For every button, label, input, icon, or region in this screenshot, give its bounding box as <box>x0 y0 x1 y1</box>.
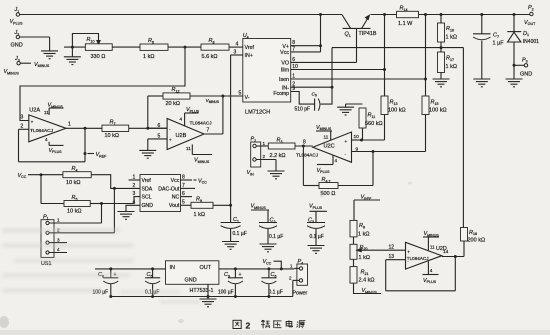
svg-text:Vout: Vout <box>169 203 180 209</box>
svg-text:0.1 µF: 0.1 µF <box>310 234 324 240</box>
svg-text:+: + <box>239 272 242 278</box>
svg-text:4: 4 <box>236 42 239 48</box>
svg-text:510 pF: 510 pF <box>295 107 311 113</box>
svg-text:1 kΩ: 1 kΩ <box>359 255 370 261</box>
svg-text:12: 12 <box>389 245 395 251</box>
svg-text:+: + <box>407 249 410 254</box>
svg-text:NC: NC <box>172 195 180 201</box>
svg-text:+: + <box>345 139 348 144</box>
svg-text:IN4001: IN4001 <box>523 39 539 45</box>
svg-text:5: 5 <box>239 91 242 97</box>
svg-text:1: 1 <box>292 74 295 80</box>
svg-text:14: 14 <box>443 249 449 255</box>
svg-text:5: 5 <box>182 200 185 206</box>
svg-text:TL084ACJ: TL084ACJ <box>296 152 318 157</box>
svg-text:SDA: SDA <box>142 186 153 192</box>
svg-text:0.1 µF: 0.1 µF <box>269 234 283 240</box>
svg-text:GND: GND <box>142 203 154 209</box>
svg-text:1 kΩ: 1 kΩ <box>194 212 205 218</box>
svg-text:V+: V+ <box>282 44 289 50</box>
svg-text:GND: GND <box>520 72 532 78</box>
svg-text:10 kΩ: 10 kΩ <box>66 180 81 186</box>
svg-text:10: 10 <box>354 134 360 140</box>
svg-text:Fcomp: Fcomp <box>273 91 289 97</box>
svg-text:LM712CH: LM712CH <box>245 109 270 115</box>
svg-text:+: + <box>31 120 34 125</box>
svg-text:4: 4 <box>430 268 433 273</box>
svg-text:+: + <box>169 138 172 143</box>
svg-text:1 µF: 1 µF <box>493 40 505 46</box>
svg-text:Power: Power <box>293 291 308 297</box>
svg-text:100 kΩ: 100 kΩ <box>429 108 447 114</box>
svg-text:SCL: SCL <box>142 195 152 201</box>
svg-text:IN: IN <box>170 265 176 271</box>
svg-text:GND: GND <box>11 43 23 49</box>
svg-text:20 kΩ: 20 kΩ <box>166 101 181 107</box>
svg-text:6: 6 <box>182 191 185 197</box>
svg-text:3: 3 <box>234 50 237 56</box>
svg-text:Vcc: Vcc <box>280 50 289 56</box>
svg-text:11: 11 <box>430 244 435 249</box>
svg-text:HT7533-1: HT7533-1 <box>190 288 214 294</box>
svg-text:11: 11 <box>186 146 191 151</box>
svg-text:0.1 µF: 0.1 µF <box>269 289 283 295</box>
svg-text:100 kΩ: 100 kΩ <box>388 108 406 114</box>
svg-text:10 kΩ: 10 kΩ <box>67 209 82 215</box>
svg-text:100 µF: 100 µF <box>218 289 234 295</box>
svg-text:1.1 W: 1.1 W <box>398 21 413 27</box>
svg-text:200 kΩ: 200 kΩ <box>468 238 486 244</box>
svg-text:9: 9 <box>292 86 295 92</box>
svg-text:2: 2 <box>21 124 24 130</box>
svg-text:3: 3 <box>21 115 24 121</box>
svg-text:4: 4 <box>180 117 183 122</box>
svg-text:7: 7 <box>207 127 210 133</box>
svg-text:4: 4 <box>247 35 249 39</box>
svg-text:11: 11 <box>324 134 329 139</box>
svg-text:2.2 kΩ: 2.2 kΩ <box>270 153 286 159</box>
svg-text:6: 6 <box>292 57 295 63</box>
svg-text:7: 7 <box>182 183 185 189</box>
svg-text:8: 8 <box>303 140 306 146</box>
svg-text:Ilim: Ilim <box>281 68 290 74</box>
svg-text:560 kΩ: 560 kΩ <box>365 121 383 127</box>
svg-text:1 kΩ: 1 kΩ <box>446 64 457 70</box>
svg-text:V-: V- <box>245 95 250 101</box>
svg-text:DAC-Out: DAC-Out <box>158 186 180 192</box>
svg-text:1: 1 <box>263 141 266 146</box>
svg-text:9: 9 <box>356 146 359 152</box>
svg-text:4: 4 <box>45 137 48 142</box>
svg-text:11: 11 <box>44 110 49 115</box>
svg-text:TIP41B: TIP41B <box>359 31 377 37</box>
svg-text:IN+: IN+ <box>245 53 253 59</box>
svg-text:4: 4 <box>335 158 338 163</box>
svg-text:TL084ACJ: TL084ACJ <box>30 128 54 134</box>
svg-text:1: 1 <box>57 218 60 223</box>
svg-text:5.6 kΩ: 5.6 kΩ <box>202 54 218 60</box>
svg-text:2: 2 <box>246 320 251 330</box>
svg-text:2.4 kΩ: 2.4 kΩ <box>359 278 375 284</box>
svg-text:1: 1 <box>133 175 136 181</box>
svg-text:0.1 µF: 0.1 µF <box>233 231 247 237</box>
svg-text:330 Ω: 330 Ω <box>91 54 106 60</box>
svg-text:U2A: U2A <box>29 108 40 114</box>
svg-text:8: 8 <box>292 40 295 46</box>
svg-text:Vcc: Vcc <box>171 178 180 184</box>
svg-text:10: 10 <box>292 64 298 70</box>
svg-text:Isen: Isen <box>279 77 289 83</box>
svg-text:1 kΩ: 1 kΩ <box>358 231 369 237</box>
svg-text:8: 8 <box>182 175 185 181</box>
svg-text:U2B: U2B <box>176 133 187 139</box>
svg-text:3: 3 <box>57 237 60 242</box>
svg-text:1: 1 <box>68 122 71 128</box>
svg-text:U2C: U2C <box>324 144 335 150</box>
svg-text:VO: VO <box>281 61 289 67</box>
svg-text:GND: GND <box>185 277 197 283</box>
svg-text:TL084ACJ: TL084ACJ <box>407 256 429 261</box>
svg-text:Vref: Vref <box>245 45 255 51</box>
svg-text:2: 2 <box>263 154 266 159</box>
svg-text:1 kΩ: 1 kΩ <box>143 54 154 60</box>
svg-text:Vref: Vref <box>142 178 152 184</box>
svg-text:7: 7 <box>292 46 295 52</box>
svg-text:1 kΩ: 1 kΩ <box>446 35 457 41</box>
svg-text:10 kΩ: 10 kΩ <box>105 133 120 139</box>
svg-text:OUT: OUT <box>200 265 212 271</box>
svg-text:TL084ACJ: TL084ACJ <box>190 121 212 126</box>
svg-text:13: 13 <box>389 254 395 260</box>
